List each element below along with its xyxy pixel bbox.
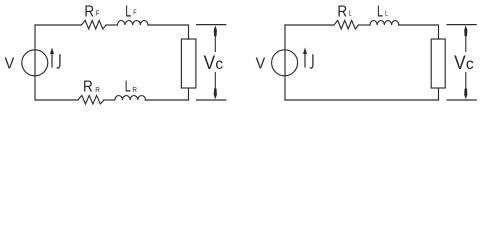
wire: load bottom lead (right) [438, 88, 440, 100]
wire: left top between RF and LF [106, 24, 117, 26]
svg-text:V: V [454, 53, 466, 74]
voltage annotation Vc (left): top tick [196, 24, 226, 26]
voltage annotation Vc (left): measuring line with arrowheads [214, 25, 217, 99]
svg-text:F: F [96, 11, 99, 18]
wire: left top wire right segment with corner down to load [148, 25, 189, 39]
voltage annotation Vc (right): measuring line with arrowheads [464, 25, 467, 99]
label Vc (left) [204, 53, 224, 74]
svg-text:L: L [377, 4, 383, 21]
wire: left bottom between RR and LR [104, 99, 115, 101]
svg-text:V: V [256, 56, 266, 73]
load impedance (right circuit) [431, 39, 445, 88]
svg-text:R: R [95, 85, 100, 94]
wire: right circuit bottom wire [285, 99, 439, 101]
voltage annotation Vc (right): bottom tick [447, 99, 477, 101]
inductor LR [115, 96, 146, 100]
svg-text:c: c [466, 56, 474, 73]
load impedance (left circuit) [181, 39, 196, 88]
wire: right top between RL and LL [359, 24, 371, 26]
resistor RF [82, 20, 107, 29]
svg-text:V: V [5, 56, 15, 73]
svg-text:R: R [132, 85, 137, 94]
wire: left circuit left vertical branch [34, 25, 36, 100]
svg-text:R: R [84, 4, 94, 21]
resistor RL [334, 20, 359, 29]
wire: left bottom wire right segment [145, 99, 188, 101]
svg-text:L: L [349, 11, 352, 18]
svg-text:L: L [125, 4, 131, 21]
wire: right circuit top wire left segment [285, 24, 334, 26]
svg-text:L: L [125, 78, 131, 95]
wire: load bottom lead (left) [188, 88, 190, 100]
svg-text:F: F [133, 9, 136, 16]
current arrow (left) [50, 47, 54, 67]
svg-text:c: c [215, 56, 223, 73]
wire: left circuit top wire left segment [35, 24, 82, 26]
label Vc (right) [454, 53, 474, 74]
current label J (right) [310, 54, 313, 68]
svg-text:V: V [204, 53, 216, 74]
current arrow (right) [303, 47, 307, 67]
svg-text:L: L [385, 11, 388, 18]
source V circle (right) [272, 50, 298, 76]
source V circle (left) [22, 50, 48, 76]
svg-text:R: R [83, 78, 93, 95]
svg-text:R: R [337, 4, 347, 21]
wire: right top wire right segment with corner down to load [399, 25, 439, 39]
wire: right circuit left vertical branch [284, 25, 286, 100]
voltage annotation Vc (left): bottom tick [196, 99, 226, 101]
inductor LF [117, 21, 148, 25]
inductor LL [370, 21, 399, 25]
current label J (left) [57, 54, 60, 68]
voltage annotation Vc (right): top tick [447, 24, 477, 26]
resistor RR [78, 95, 104, 104]
wire: left circuit bottom wire left segment [35, 99, 78, 101]
